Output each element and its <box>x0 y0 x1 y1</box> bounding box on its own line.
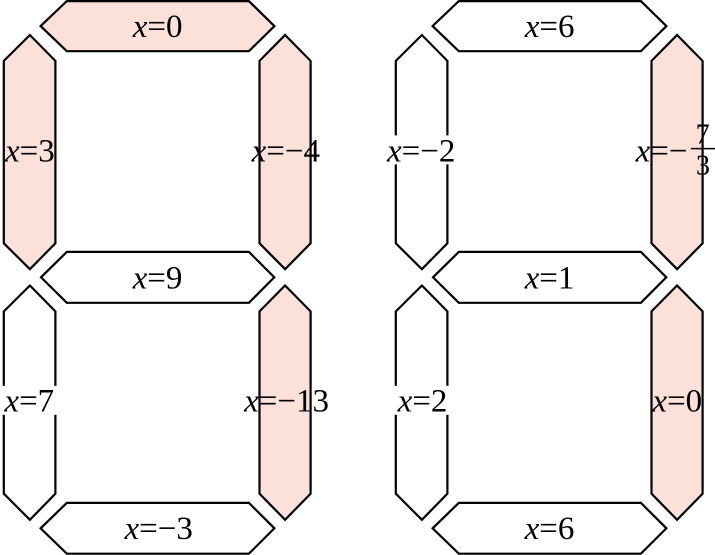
svg-text:x=0: x=0 <box>651 383 702 419</box>
right f : x=-2 (white bg) <box>382 135 459 164</box>
svg-text:x=−13: x=−13 <box>243 383 329 419</box>
left g : x=9 (white bg) <box>128 262 187 291</box>
svg-text:3: 3 <box>696 151 710 182</box>
left digit segment f (top-left, pink) <box>4 35 56 269</box>
svg-text:x=2: x=2 <box>397 383 448 419</box>
svg-text:x=−2: x=−2 <box>386 133 455 169</box>
svg-text:x=3: x=3 <box>4 133 55 169</box>
right digit segment a (top, white) <box>433 1 667 51</box>
left digit segment g (middle, white) <box>41 252 274 303</box>
svg-text:x=7: x=7 <box>3 383 54 419</box>
left e : x=7 (white bg) <box>0 386 58 415</box>
left digit segment a (top, pink) <box>41 1 275 51</box>
right digit segment c (bottom-right, pink) <box>652 286 703 520</box>
left digit segment b (top-right, pink) <box>260 35 311 269</box>
right g : x=1 (white bg) <box>520 262 579 291</box>
svg-text:x=6: x=6 <box>524 9 575 45</box>
svg-text:x=6: x=6 <box>524 511 575 547</box>
right digit segment e (bottom-left, white) <box>396 286 448 520</box>
right d : x=6 (white bg) <box>520 514 579 543</box>
left digit segment e (bottom-left, white) <box>4 286 56 520</box>
svg-text:x=−4: x=−4 <box>251 133 320 169</box>
right digit segment g (middle, white) <box>433 252 666 303</box>
svg-text:x=9: x=9 <box>132 260 183 296</box>
svg-text:x=1: x=1 <box>524 260 575 296</box>
svg-text:x=−3: x=−3 <box>124 511 193 547</box>
left digit segment c (bottom-right, pink) <box>260 286 311 520</box>
left d : x=-3 (white bg) <box>120 514 197 543</box>
right b : x=-7/3 fraction (pink, no bg) <box>635 119 715 181</box>
left digit segment d (bottom, white) <box>41 503 275 554</box>
right e : x=2 (white bg) <box>393 386 452 415</box>
right digit segment b (top-right, pink) <box>652 35 703 269</box>
right digit segment f (top-left, white) <box>396 35 448 269</box>
right a : x=6 (white bg) <box>520 11 579 40</box>
svg-text:7: 7 <box>696 119 710 150</box>
svg-text:x=−: x=− <box>635 133 688 169</box>
svg-text:x=0: x=0 <box>132 9 183 45</box>
right digit segment d (bottom, white) <box>433 503 667 554</box>
